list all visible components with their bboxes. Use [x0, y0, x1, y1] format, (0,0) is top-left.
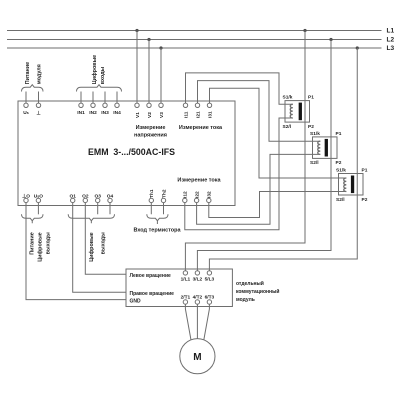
svg-text:I22: I22 — [194, 191, 200, 198]
svg-text:Питание: Питание — [25, 62, 31, 84]
svg-text:Измерение тока: Измерение тока — [177, 178, 221, 184]
svg-text:P1: P1 — [336, 131, 342, 137]
svg-text:⊥O: ⊥O — [22, 193, 30, 199]
svg-text:S1/k: S1/k — [310, 131, 320, 137]
svg-text:Th2: Th2 — [161, 189, 167, 198]
svg-text:3/L2: 3/L2 — [193, 277, 203, 283]
svg-text:I21: I21 — [195, 111, 201, 118]
svg-text:напряжения: напряжения — [134, 133, 167, 139]
svg-text:S2/l: S2/l — [310, 160, 319, 166]
svg-text:UsO: UsO — [34, 193, 43, 199]
svg-text:IN3: IN3 — [101, 110, 109, 116]
svg-text:O2: O2 — [82, 193, 89, 199]
svg-text:P1: P1 — [362, 168, 368, 174]
svg-text:1/L1: 1/L1 — [181, 277, 191, 283]
svg-text:Вход термистора: Вход термистора — [133, 228, 181, 234]
svg-text:Цифровые: Цифровые — [36, 232, 43, 261]
svg-text:S1/k: S1/k — [336, 168, 346, 174]
svg-text:IN4: IN4 — [113, 110, 121, 116]
svg-text:Питание: Питание — [30, 232, 36, 254]
svg-text:Измерение: Измерение — [136, 125, 166, 131]
svg-text:модуля: модуля — [36, 64, 42, 84]
svg-text:выходы: выходы — [45, 232, 51, 254]
svg-text:V2: V2 — [147, 112, 153, 118]
svg-text:P2: P2 — [336, 160, 342, 166]
svg-text:коммутационный: коммутационный — [236, 288, 279, 295]
svg-text:L2: L2 — [387, 37, 395, 44]
svg-text:EMM 3-.../500AC-IFS: EMM 3-.../500AC-IFS — [88, 147, 175, 157]
svg-text:M: M — [193, 352, 201, 363]
svg-text:Измерение тока: Измерение тока — [179, 125, 223, 131]
svg-text:P2: P2 — [308, 124, 314, 130]
svg-text:IN2: IN2 — [89, 110, 97, 116]
svg-text:I12: I12 — [183, 191, 189, 198]
svg-text:V1: V1 — [135, 112, 141, 118]
svg-text:O3: O3 — [94, 193, 101, 199]
svg-text:Правое вращение: Правое вращение — [130, 291, 175, 297]
svg-text:I31: I31 — [207, 111, 213, 118]
svg-text:I32: I32 — [207, 191, 213, 198]
svg-text:L1: L1 — [387, 28, 395, 35]
svg-text:I11: I11 — [183, 111, 189, 118]
svg-text:модуль: модуль — [236, 297, 255, 303]
svg-text:6/T3: 6/T3 — [205, 295, 215, 301]
svg-text:4/T2: 4/T2 — [193, 295, 203, 301]
svg-text:L3: L3 — [387, 45, 395, 52]
svg-text:выходы: выходы — [100, 232, 106, 254]
svg-text:V3: V3 — [159, 112, 165, 118]
svg-text:O1: O1 — [69, 193, 76, 199]
svg-text:Цифровые: Цифровые — [88, 232, 95, 261]
svg-text:GND: GND — [130, 298, 142, 304]
svg-text:2/T1: 2/T1 — [181, 295, 191, 301]
svg-text:S1/k: S1/k — [283, 95, 293, 101]
svg-text:S2/l: S2/l — [336, 197, 345, 203]
svg-text:P2: P2 — [362, 197, 368, 203]
svg-text:IN1: IN1 — [77, 110, 85, 116]
svg-text:Левое вращение: Левое вращение — [130, 273, 172, 279]
svg-text:входы: входы — [100, 66, 106, 84]
svg-text:отдельный: отдельный — [236, 280, 264, 287]
svg-text:5/L3: 5/L3 — [205, 277, 215, 283]
svg-text:P1: P1 — [308, 95, 314, 101]
svg-text:Цифровые: Цифровые — [91, 55, 98, 84]
svg-text:Th1: Th1 — [149, 189, 155, 198]
svg-text:S2/l: S2/l — [283, 124, 292, 130]
svg-text:O4: O4 — [107, 193, 114, 199]
